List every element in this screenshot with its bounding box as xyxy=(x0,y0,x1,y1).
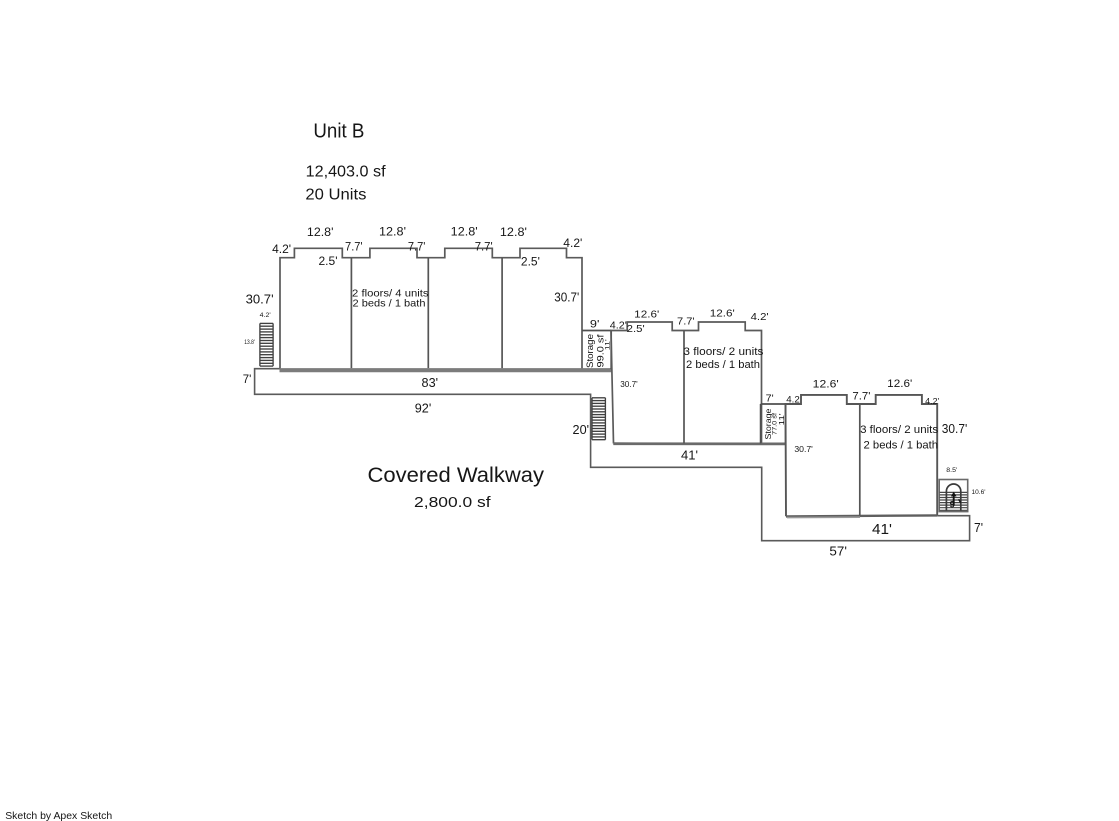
svg-text:41': 41' xyxy=(872,522,892,538)
stairwell SW3 tread hatch lines xyxy=(940,492,968,510)
svg-text:2.5': 2.5' xyxy=(319,256,338,268)
svg-text:10.6': 10.6' xyxy=(972,489,986,496)
svg-text:92': 92' xyxy=(415,401,432,415)
svg-text:4.2: 4.2 xyxy=(786,395,800,406)
svg-text:7.7': 7.7' xyxy=(852,390,870,402)
exterior stairs S1 (left of building B1) xyxy=(260,323,273,366)
building B2 bottom wall (thick) xyxy=(613,442,785,445)
building B3 unit divider wall xyxy=(859,404,861,515)
svg-text:4.2': 4.2' xyxy=(272,244,291,256)
stairwell SW3 direction arrow head xyxy=(951,492,957,497)
svg-text:12.8': 12.8' xyxy=(451,226,478,238)
building B3 outline (3 floors / 2 units) xyxy=(786,395,938,516)
svg-text:2 beds / 1 bath: 2 beds / 1 bath xyxy=(353,297,426,309)
svg-text:4.2': 4.2' xyxy=(925,397,940,406)
svg-text:20 Units: 20 Units xyxy=(305,187,366,204)
building B1 unit divider wall 3 xyxy=(501,258,503,368)
building B3 bottom wall xyxy=(786,515,937,516)
svg-text:Unit B: Unit B xyxy=(313,121,364,143)
building B2 unit divider wall xyxy=(683,331,685,444)
covered walkway outline xyxy=(255,369,970,541)
svg-text:Covered Walkway: Covered Walkway xyxy=(368,464,545,487)
svg-text:12.6': 12.6' xyxy=(710,308,735,320)
svg-text:30.7': 30.7' xyxy=(794,444,813,454)
walkway thick top band under building B1 xyxy=(280,368,612,372)
svg-text:4.2': 4.2' xyxy=(610,320,627,332)
stairwell SW3 tick mark xyxy=(959,499,961,502)
svg-text:13.8': 13.8' xyxy=(244,340,255,346)
svg-text:4.2': 4.2' xyxy=(260,313,271,319)
svg-text:7.7': 7.7' xyxy=(475,242,493,254)
stairwell SW3 direction arrow shaft xyxy=(953,495,955,506)
svg-text:Storage: Storage xyxy=(585,334,596,368)
svg-text:7': 7' xyxy=(243,372,252,386)
svg-text:2,800.0 sf: 2,800.0 sf xyxy=(414,495,492,511)
svg-text:12.8': 12.8' xyxy=(307,227,334,239)
storage room ST1 (9' x 11') xyxy=(582,331,611,370)
svg-text:12.6': 12.6' xyxy=(887,378,912,390)
svg-text:7': 7' xyxy=(974,520,983,535)
svg-text:12.6': 12.6' xyxy=(634,309,659,321)
svg-text:57': 57' xyxy=(829,544,847,559)
svg-text:3 floors/ 2 units: 3 floors/ 2 units xyxy=(683,346,764,358)
storage room ST2 (7' x 11') xyxy=(761,404,786,444)
svg-text:4.2': 4.2' xyxy=(563,238,582,250)
svg-text:Sketch by Apex Sketch: Sketch by Apex Sketch xyxy=(5,810,112,821)
svg-text:2 beds / 1 bath: 2 beds / 1 bath xyxy=(864,440,939,452)
svg-text:12.8': 12.8' xyxy=(379,227,406,239)
svg-text:12,403.0 sf: 12,403.0 sf xyxy=(306,164,387,181)
building B1 unit divider wall 1 xyxy=(350,258,352,368)
svg-text:7': 7' xyxy=(766,394,774,405)
building B1 outline (2 floors / 4 units) xyxy=(280,248,582,369)
svg-text:30.7': 30.7' xyxy=(554,291,579,305)
svg-text:30.7': 30.7' xyxy=(620,380,638,389)
svg-text:2 beds / 1 bath: 2 beds / 1 bath xyxy=(686,359,760,371)
svg-text:7.7': 7.7' xyxy=(677,315,695,327)
svg-text:2.5': 2.5' xyxy=(627,323,645,335)
svg-text:30.7': 30.7' xyxy=(246,293,274,307)
svg-text:83': 83' xyxy=(422,376,439,390)
svg-text:9': 9' xyxy=(590,318,600,330)
exterior stairs S2 (left of building B2) xyxy=(592,398,605,440)
svg-text:8.5': 8.5' xyxy=(946,468,957,474)
svg-text:77.0 sf: 77.0 sf xyxy=(772,413,778,435)
svg-text:2.5': 2.5' xyxy=(521,257,540,269)
svg-text:30.7': 30.7' xyxy=(942,422,968,436)
building B3 bottom wall gray overlay (left half) xyxy=(787,516,860,518)
svg-text:7.7': 7.7' xyxy=(345,242,363,254)
stairwell SW3 box (right of building B3) xyxy=(939,480,968,512)
building B2 outline (3 floors / 2 units) xyxy=(611,322,762,444)
svg-text:12.8': 12.8' xyxy=(500,227,527,239)
svg-text:7.7': 7.7' xyxy=(408,242,426,254)
stairwell SW3 U-shaped rail arch xyxy=(946,484,960,511)
svg-text:12.6': 12.6' xyxy=(813,379,839,391)
svg-text:4.2': 4.2' xyxy=(751,311,769,323)
svg-text:41': 41' xyxy=(681,447,698,462)
building B1 unit divider wall 2 xyxy=(427,258,429,368)
svg-text:20': 20' xyxy=(573,422,590,437)
svg-text:3 floors/ 2 units: 3 floors/ 2 units xyxy=(860,424,939,436)
